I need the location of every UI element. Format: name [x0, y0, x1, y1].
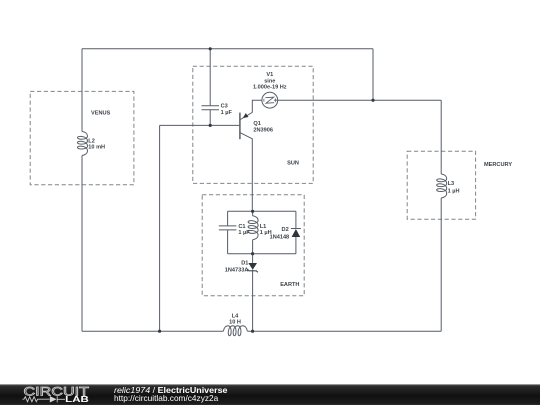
- svg-text:1.000e-19 Hz: 1.000e-19 Hz: [253, 85, 287, 91]
- svg-text:L4: L4: [232, 313, 239, 319]
- svg-text:MERCURY: MERCURY: [484, 162, 512, 168]
- svg-text:sine: sine: [264, 78, 275, 84]
- svg-text:1 µF: 1 µF: [238, 230, 250, 236]
- svg-text:C1: C1: [238, 224, 245, 230]
- svg-text:EARTH: EARTH: [280, 282, 299, 288]
- svg-text:http://circuitlab.com/c4zyz2a: http://circuitlab.com/c4zyz2a: [114, 393, 219, 403]
- svg-text:1N4733A: 1N4733A: [225, 268, 249, 274]
- svg-text:L2: L2: [88, 138, 95, 144]
- svg-text:SUN: SUN: [287, 161, 299, 167]
- svg-text:L1: L1: [260, 224, 267, 230]
- svg-text:D2: D2: [282, 227, 289, 233]
- svg-text:Q1: Q1: [253, 121, 260, 127]
- svg-text:VENUS: VENUS: [91, 110, 111, 116]
- svg-text:2N3906: 2N3906: [253, 127, 273, 133]
- svg-text:D1: D1: [241, 261, 248, 267]
- svg-text:10 H: 10 H: [229, 320, 241, 326]
- svg-text:1 µF: 1 µF: [221, 110, 233, 116]
- svg-text:L3: L3: [448, 181, 455, 187]
- svg-text:V1: V1: [266, 72, 273, 78]
- svg-text:C3: C3: [221, 104, 228, 110]
- svg-text:1N4148: 1N4148: [270, 235, 290, 241]
- svg-text:1 µH: 1 µH: [448, 188, 460, 194]
- svg-text:10 mH: 10 mH: [88, 145, 105, 151]
- svg-text:LAB: LAB: [65, 395, 89, 404]
